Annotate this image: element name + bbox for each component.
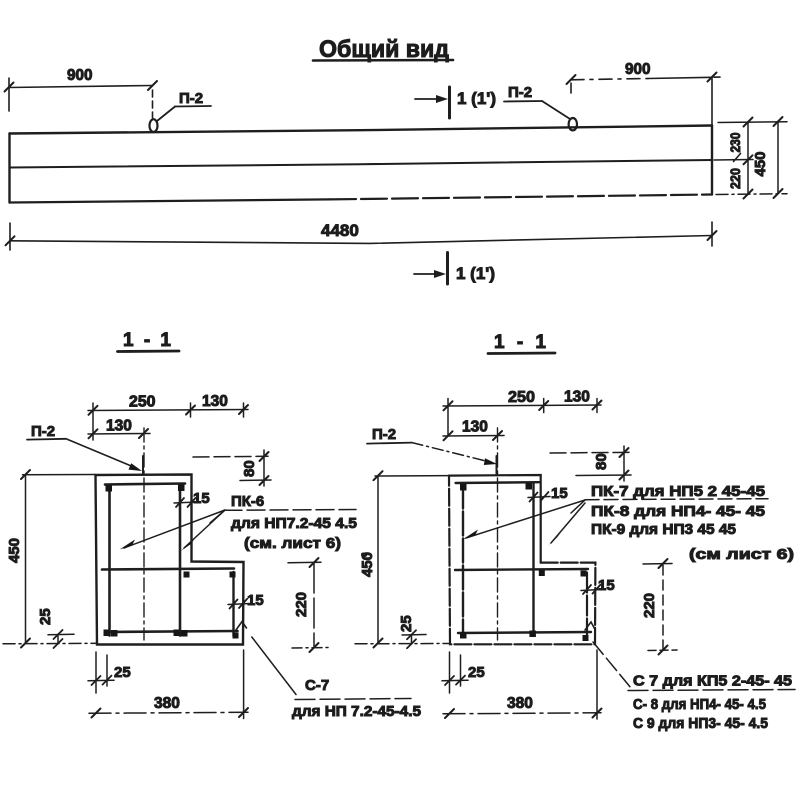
svg-text:450: 450 — [752, 151, 769, 176]
svg-text:380: 380 — [154, 695, 180, 712]
dimension 900 right — [567, 73, 721, 126]
right section rebar bottom bar — [458, 632, 591, 633]
labels С-7/С-8/С-9 with leader — [593, 642, 795, 691]
svg-text:25: 25 — [398, 615, 415, 632]
svg-text:380: 380 — [507, 695, 533, 712]
label П-2 right section with leader — [367, 426, 497, 465]
svg-text:1 - 1: 1 - 1 — [494, 332, 546, 353]
left section cover dim 15 top — [174, 498, 197, 507]
svg-text:450: 450 — [359, 552, 376, 577]
left section dimension 450 — [3, 470, 97, 648]
left section rebar mid bar — [102, 569, 234, 570]
left section rebar bottom bar — [105, 631, 238, 632]
svg-text:130: 130 — [462, 419, 488, 436]
svg-text:900: 900 — [625, 61, 651, 78]
svg-text:С 7 для КП5 2-45- 45: С 7 для КП5 2-45- 45 — [633, 674, 792, 690]
beam left edge — [8, 134, 10, 203]
right section top dimension 250+130 — [443, 399, 602, 437]
label П-2 top-right with leader — [504, 84, 570, 119]
svg-text:230: 230 — [727, 132, 743, 152]
left section rebar dots — [104, 485, 239, 639]
svg-text:220: 220 — [727, 168, 743, 189]
svg-text:250: 250 — [129, 394, 156, 411]
svg-text:ПК-7 для НП5 2 45-45: ПК-7 для НП5 2 45-45 — [591, 484, 765, 500]
right section axis center line — [497, 428, 499, 640]
lifting loop right — [569, 118, 577, 130]
svg-text:П-2: П-2 — [179, 90, 203, 107]
right side height dimensions 220/230/450 — [714, 117, 787, 199]
section title 1-1 right — [488, 332, 555, 354]
right section loop protrusion — [496, 456, 498, 475]
left section axis center line — [143, 428, 145, 640]
right section cover dim 15 lower — [581, 585, 601, 594]
left section bottom dim 380 — [89, 650, 248, 719]
svg-text:С- 8 для НП4- 45- 4.5: С- 8 для НП4- 45- 4.5 — [633, 697, 766, 713]
right section corner hook — [585, 622, 595, 630]
beam right edge — [711, 126, 713, 195]
left section rebar left bar — [108, 485, 111, 636]
right section rebar step bar — [586, 573, 588, 637]
dimension 900 left — [5, 78, 158, 118]
section mark 1(1') top — [415, 87, 450, 118]
label С-7 with leader — [252, 637, 411, 700]
right section outline — [449, 475, 541, 563]
left section dimension 80 — [193, 450, 271, 486]
left section loop protrusion — [142, 456, 144, 475]
title "Общий вид" — [313, 36, 453, 63]
svg-text:450: 450 — [6, 538, 23, 563]
svg-text:П-2: П-2 — [508, 84, 532, 101]
left section dimension 130 — [88, 429, 150, 438]
svg-text:220: 220 — [293, 592, 310, 617]
svg-text:80: 80 — [241, 460, 258, 477]
left section cover dim 15 lower — [228, 599, 250, 609]
left section outline — [96, 475, 244, 645]
beam top edge — [10, 126, 713, 134]
svg-text:15: 15 — [598, 577, 615, 594]
right section bottom dim 380 — [443, 650, 602, 719]
svg-text:15: 15 — [193, 490, 210, 507]
right section dimension 80 — [550, 446, 631, 481]
right section dimension 450 — [355, 471, 450, 647]
svg-text:25: 25 — [468, 664, 485, 681]
svg-text:130: 130 — [202, 393, 228, 410]
svg-text:15: 15 — [247, 592, 264, 609]
left section top dimension 250+130 — [88, 403, 248, 440]
svg-text:130: 130 — [106, 418, 132, 435]
svg-text:15: 15 — [551, 485, 568, 502]
left section dim 25 (bottom cover, left) — [48, 630, 74, 648]
svg-text:(см. лист 6): (см. лист 6) — [244, 535, 341, 552]
svg-text:900: 900 — [67, 67, 93, 84]
label ПК-6 with leaders — [120, 510, 357, 552]
stray mark — [361, 553, 367, 558]
svg-text:для НП 7.2-45-4.5: для НП 7.2-45-4.5 — [292, 704, 421, 720]
svg-text:ПК-6: ПК-6 — [231, 493, 264, 510]
svg-text:1 (1'): 1 (1') — [457, 89, 496, 108]
svg-text:130: 130 — [564, 389, 590, 406]
svg-text:250: 250 — [508, 389, 535, 406]
svg-text:П-2: П-2 — [372, 426, 396, 443]
right section rebar right bar — [532, 484, 534, 636]
svg-text:4480: 4480 — [321, 221, 359, 240]
svg-text:1 - 1: 1 - 1 — [123, 330, 171, 351]
right section dimension 130 — [443, 431, 504, 440]
svg-text:25: 25 — [114, 664, 131, 681]
right section cover dim 15 top — [528, 492, 550, 502]
svg-text:25: 25 — [37, 608, 54, 625]
right section rebar top bar — [456, 481, 539, 484]
beam middle line — [10, 160, 713, 168]
section title 1-1 left — [118, 330, 180, 352]
svg-text:1 (1'): 1 (1') — [456, 264, 495, 283]
left section rebar top bar — [105, 484, 185, 485]
right section dim 220 — [643, 559, 677, 655]
right section rebar left bar — [462, 485, 464, 636]
left section corner hook — [236, 622, 247, 631]
right section rebar mid bar — [455, 569, 588, 570]
right section bottom dim 25 — [442, 652, 468, 693]
svg-text:80: 80 — [593, 453, 610, 470]
svg-text:220: 220 — [641, 593, 658, 618]
beam bottom edge — [10, 199, 331, 202]
left section bottom dim 25 — [88, 652, 114, 693]
svg-text:ПК-8 для НП4- 45- 45: ПК-8 для НП4- 45- 45 — [591, 504, 765, 520]
svg-text:С 9 для НП3- 45- 4.5: С 9 для НП3- 45- 4.5 — [633, 716, 768, 732]
right section rebar dots — [460, 483, 589, 641]
dimension 4480 — [6, 222, 717, 250]
left section dim 220 — [288, 558, 328, 652]
labels ПК-7/ПК-8/ПК-9 with leaders — [463, 499, 769, 547]
right section dim 25 (bottom cover, left) — [402, 630, 426, 648]
svg-text:П-2: П-2 — [31, 423, 55, 440]
svg-text:(см лист 6): (см лист 6) — [689, 546, 794, 563]
left section rebar right bar — [179, 484, 182, 636]
lifting loop left — [150, 119, 158, 132]
svg-text:ПК-9 для НП3 45 45: ПК-9 для НП3 45 45 — [591, 522, 736, 538]
label П-2 top-left with leader — [157, 90, 211, 121]
svg-text:С-7: С-7 — [305, 677, 329, 694]
label П-2 left section with leader — [27, 423, 142, 471]
svg-text:для НП7.2-45 4.5: для НП7.2-45 4.5 — [231, 516, 357, 532]
left section rebar step bar — [232, 572, 234, 636]
section mark 1(1') bottom — [414, 253, 448, 285]
